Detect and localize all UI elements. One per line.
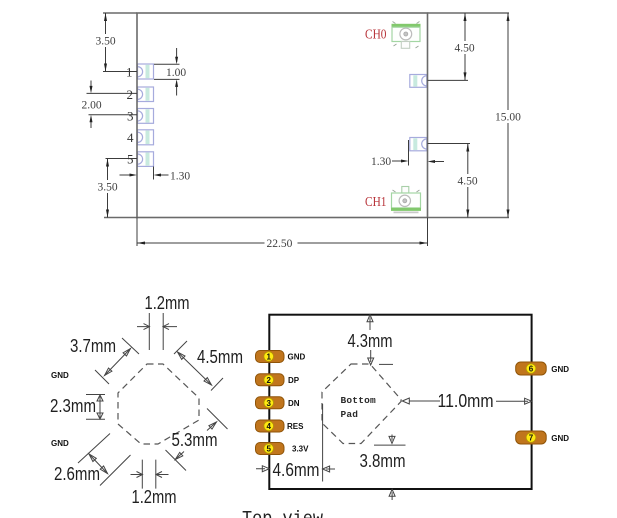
- svg-text:5: 5: [127, 152, 134, 167]
- svg-text:3: 3: [127, 108, 134, 123]
- svg-text:GND: GND: [51, 371, 69, 380]
- pad 5 (left): [138, 152, 154, 167]
- svg-text:1.30: 1.30: [371, 156, 391, 168]
- dim 3.50 bottom : arrows: [106, 159, 109, 218]
- svg-text:1.2mm: 1.2mm: [145, 293, 190, 313]
- svg-text:2.6mm: 2.6mm: [54, 464, 100, 484]
- bottom edge extension lines: [104, 217, 509, 219]
- leader line pad A: [428, 79, 469, 81]
- svg-text:3.3V: 3.3V: [292, 445, 309, 454]
- dim 4.50 top : text: [454, 41, 476, 55]
- leader line pad1: [103, 71, 137, 73]
- dim 15.00 : arrows: [507, 13, 510, 218]
- svg-text:Top view: Top view: [242, 508, 324, 518]
- svg-text:GND: GND: [551, 365, 569, 374]
- leader line pad3: [89, 114, 138, 116]
- svg-text:2.3mm: 2.3mm: [50, 396, 96, 416]
- dim 4.50 bottom : text: [457, 174, 479, 188]
- svg-text:1: 1: [267, 353, 272, 362]
- dim 4.50 bottom : line: [467, 144, 469, 218]
- dim 5.3mm : double arrow (broken by text): [175, 422, 216, 460]
- dim 1.00 : arrows outside: [176, 48, 178, 96]
- pin 6 pad: [516, 362, 547, 375]
- dim 15.00 : line: [507, 13, 509, 218]
- svg-text:Pad: Pad: [341, 409, 359, 420]
- dim 4.5mm : extension lines: [174, 341, 223, 391]
- svg-text:GND: GND: [288, 353, 306, 362]
- svg-text:CH0: CH0: [365, 28, 387, 43]
- dim 3.50 bottom : text: [97, 180, 119, 194]
- top edge extension lines: [103, 12, 509, 14]
- dim 2.6mm : extension lines: [78, 434, 131, 486]
- dim 2.3mm : double arrow: [99, 395, 101, 419]
- svg-text:GND: GND: [551, 434, 569, 443]
- dim 2.3mm : reference ticks: [86, 395, 105, 420]
- svg-text:CH1: CH1: [365, 195, 387, 210]
- dim 1.30 left : arrow toward edge: [120, 174, 135, 176]
- pad B (right lower): [410, 138, 427, 151]
- svg-text:2: 2: [267, 376, 272, 385]
- dim 1.2mm bottom : arrows: [131, 474, 169, 476]
- pin 3 pad: [256, 397, 285, 409]
- left+right edge extensions below board: [137, 218, 428, 247]
- pin 4 pad: [256, 420, 285, 432]
- dim 22.50 : line: [137, 242, 428, 244]
- svg-text:3.8mm: 3.8mm: [360, 451, 406, 471]
- svg-text:3.7mm: 3.7mm: [70, 336, 116, 356]
- dim 22.50 : arrows: [137, 242, 428, 245]
- svg-text:1: 1: [126, 65, 133, 80]
- pin 1 pad: [256, 351, 285, 363]
- dim 3.50 top : line: [105, 13, 107, 72]
- svg-text:4: 4: [127, 130, 134, 145]
- dim 1.2mm bottom : extension lines: [142, 460, 156, 489]
- dim 3.8mm : down arrow: [389, 435, 395, 444]
- board outline (footprint, top view): [269, 315, 531, 489]
- pin 7 pad: [516, 431, 547, 444]
- svg-text:4.5mm: 4.5mm: [197, 347, 243, 367]
- dim 1.00 : reference lines: [154, 64, 180, 79]
- leader line pad5: [106, 158, 138, 160]
- dim 3.50 top : text: [95, 34, 117, 48]
- svg-text:1.30: 1.30: [170, 171, 190, 183]
- dim 3.7mm : extension lines: [95, 338, 139, 384]
- svg-text:4.50: 4.50: [458, 176, 478, 188]
- svg-text:11.0mm: 11.0mm: [438, 391, 494, 411]
- dim 4.6mm : right arrow + extension line: [323, 466, 335, 472]
- dim 2.00 : arrows outside: [90, 81, 92, 129]
- dim 3.8mm : reference line: [374, 444, 406, 446]
- svg-text:6: 6: [529, 365, 534, 374]
- dim 15.00 : text: [495, 110, 523, 124]
- pad 4 (left): [138, 130, 154, 145]
- svg-text:2.00: 2.00: [82, 100, 102, 112]
- dim 1.30 right : pad extension line: [408, 140, 410, 166]
- svg-text:Bottom: Bottom: [341, 395, 377, 406]
- dim 3.50 bottom : line: [107, 159, 109, 218]
- dim 3.50 top : arrows: [104, 13, 107, 72]
- svg-text:3.50: 3.50: [98, 182, 118, 194]
- dim 4.5mm : double arrow: [178, 352, 212, 385]
- pad 1 (left, top view): [138, 64, 154, 79]
- svg-text:4.6mm: 4.6mm: [273, 460, 320, 480]
- dim 1.2mm top : extension lines: [149, 313, 163, 350]
- svg-text:GND: GND: [51, 439, 69, 448]
- dim 1.30 right : arrow toward board edge: [431, 161, 444, 163]
- svg-text:22.50: 22.50: [267, 238, 293, 250]
- dim 4.3mm : reference line: [379, 363, 393, 365]
- dim 4.50 top : line: [464, 13, 466, 80]
- dim 11.0mm : left arrow: [402, 398, 440, 404]
- connector CH1 (U.FL): [392, 187, 421, 213]
- antenna pad octagon (dashed): [118, 364, 199, 444]
- dim 5.3mm : extension lines: [166, 409, 228, 471]
- pad A (right upper): [410, 75, 427, 88]
- dim 1.2mm top : arrows: [137, 326, 177, 328]
- svg-text:15.00: 15.00: [495, 112, 521, 124]
- svg-text:DP: DP: [288, 376, 300, 385]
- svg-text:2: 2: [127, 87, 134, 102]
- dim 2.6mm : double arrow: [89, 454, 108, 474]
- svg-text:3.50: 3.50: [96, 36, 116, 48]
- pad 2 (left): [138, 87, 154, 102]
- connector CH0 (U.FL): [392, 22, 420, 49]
- dim 4.50 bottom : arrows: [466, 144, 469, 218]
- pin 5 pad: [256, 443, 285, 455]
- dim 4.3mm : bottom arrow: [368, 350, 374, 365]
- dim 4.3mm : top arrow: [367, 315, 373, 330]
- svg-text:5: 5: [267, 445, 272, 454]
- svg-text:4.50: 4.50: [455, 43, 475, 55]
- leader line pad B: [428, 143, 471, 145]
- svg-text:DN: DN: [288, 399, 300, 408]
- svg-text:3: 3: [267, 399, 272, 408]
- svg-text:1.2mm: 1.2mm: [132, 487, 177, 507]
- leader line pad2: [87, 92, 138, 94]
- dim bottom : up arrow under board: [389, 489, 395, 500]
- dim 1.30 right : arrow toward pad-left extension: [392, 160, 404, 162]
- board outline (module): [137, 13, 428, 218]
- svg-text:1.00: 1.00: [166, 67, 186, 79]
- svg-text:7: 7: [529, 434, 534, 443]
- dim 3.7mm : double arrow: [105, 349, 131, 376]
- svg-text:4: 4: [267, 422, 272, 431]
- dim 4.50 top : arrows: [464, 13, 467, 80]
- dim 1.30 left : pad edge extension: [153, 167, 155, 180]
- svg-text:4.3mm: 4.3mm: [348, 331, 393, 351]
- dim 4.6mm : left arrow outside: [256, 466, 269, 472]
- svg-text:5.3mm: 5.3mm: [172, 430, 218, 450]
- svg-text:RES: RES: [287, 422, 304, 431]
- bottom pad octagon (dashed): [322, 364, 401, 444]
- dim 22.50 : text: [265, 236, 298, 250]
- pad 3 (left): [138, 109, 154, 124]
- dim 11.0mm : right arrow: [496, 398, 532, 404]
- dim 1.30 left : arrow toward pad edge: [157, 174, 169, 176]
- pin 2 pad: [256, 374, 285, 386]
